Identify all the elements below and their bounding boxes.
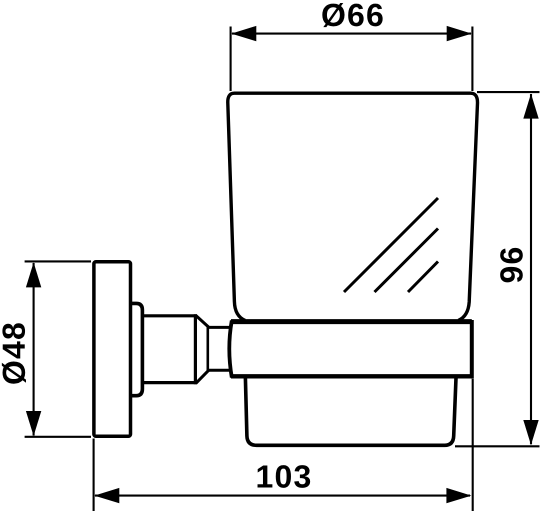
svg-text:96: 96 (493, 245, 529, 283)
svg-text:103: 103 (255, 458, 312, 494)
svg-text:Ø48: Ø48 (0, 321, 32, 385)
svg-text:Ø66: Ø66 (321, 0, 385, 33)
